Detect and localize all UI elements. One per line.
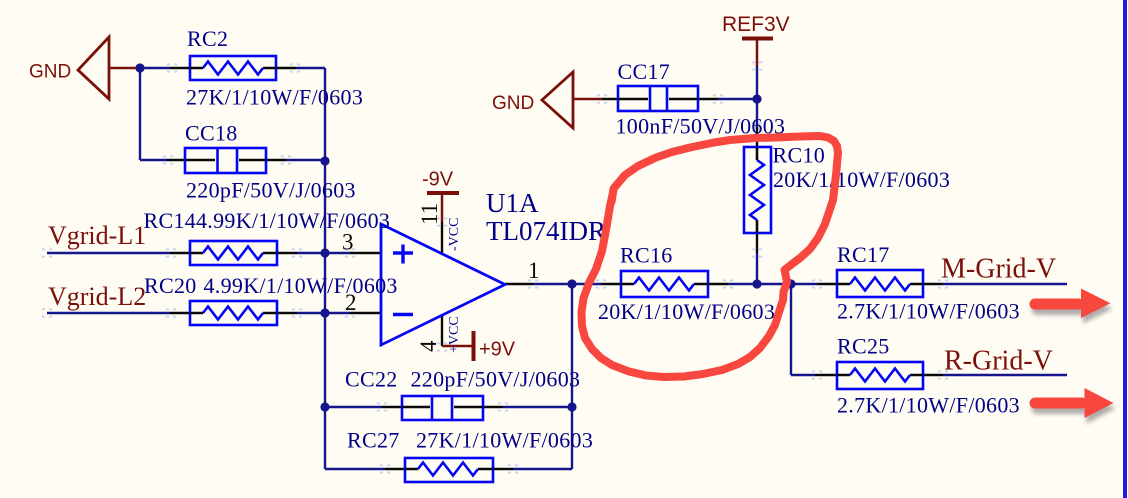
svg-text:11: 11 bbox=[417, 203, 442, 225]
svg-text:RC27: RC27 bbox=[347, 428, 400, 453]
svg-text:RC20: RC20 bbox=[144, 273, 197, 298]
svg-text:220pF/50V/J/0603: 220pF/50V/J/0603 bbox=[186, 178, 356, 203]
svg-text:+9V: +9V bbox=[479, 339, 516, 361]
svg-text:CC22: CC22 bbox=[345, 367, 398, 392]
svg-text:2: 2 bbox=[345, 290, 357, 315]
svg-text:3: 3 bbox=[342, 230, 354, 255]
svg-text:REF3V: REF3V bbox=[722, 13, 790, 36]
svg-text:4.99K/1/10W/F/0603: 4.99K/1/10W/F/0603 bbox=[204, 273, 398, 298]
svg-text:27K/1/10W/F/0603: 27K/1/10W/F/0603 bbox=[186, 85, 363, 110]
svg-text:+VCC: +VCC bbox=[447, 316, 462, 353]
svg-text:4: 4 bbox=[416, 340, 441, 352]
svg-text:CC18: CC18 bbox=[185, 121, 238, 146]
svg-text:U1A: U1A bbox=[486, 188, 539, 218]
svg-text:4.99K/1/10W/F/0603: 4.99K/1/10W/F/0603 bbox=[196, 208, 390, 233]
svg-text:TL074IDR: TL074IDR bbox=[486, 216, 606, 246]
svg-text:R-Grid-V: R-Grid-V bbox=[944, 346, 1053, 377]
svg-text:CC17: CC17 bbox=[618, 59, 671, 84]
svg-text:GND: GND bbox=[29, 62, 71, 83]
svg-text:20K/1/10W/F/0603: 20K/1/10W/F/0603 bbox=[598, 299, 775, 324]
svg-text:RC2: RC2 bbox=[187, 26, 228, 51]
svg-text:RC10: RC10 bbox=[773, 143, 826, 168]
svg-text:2.7K/1/10W/F/0603: 2.7K/1/10W/F/0603 bbox=[837, 299, 1020, 324]
svg-text:RC16: RC16 bbox=[620, 243, 673, 268]
svg-text:RC25: RC25 bbox=[837, 334, 890, 359]
svg-text:-9V: -9V bbox=[422, 169, 454, 191]
svg-text:20K/1/10W/F/0603: 20K/1/10W/F/0603 bbox=[773, 167, 950, 192]
svg-text:1: 1 bbox=[528, 258, 540, 283]
svg-text:M-Grid-V: M-Grid-V bbox=[941, 254, 1056, 285]
svg-text:GND: GND bbox=[492, 93, 534, 114]
svg-text:RC17: RC17 bbox=[837, 242, 890, 267]
svg-text:RC14: RC14 bbox=[144, 208, 197, 233]
svg-text:2.7K/1/10W/F/0603: 2.7K/1/10W/F/0603 bbox=[837, 393, 1020, 418]
svg-text:27K/1/10W/F/0603: 27K/1/10W/F/0603 bbox=[416, 428, 593, 453]
svg-text:-VCC: -VCC bbox=[447, 218, 462, 251]
svg-text:Vgrid-L1: Vgrid-L1 bbox=[48, 221, 146, 250]
svg-text:220pF/50V/J/0603: 220pF/50V/J/0603 bbox=[411, 367, 581, 392]
svg-text:Vgrid-L2: Vgrid-L2 bbox=[48, 282, 146, 311]
